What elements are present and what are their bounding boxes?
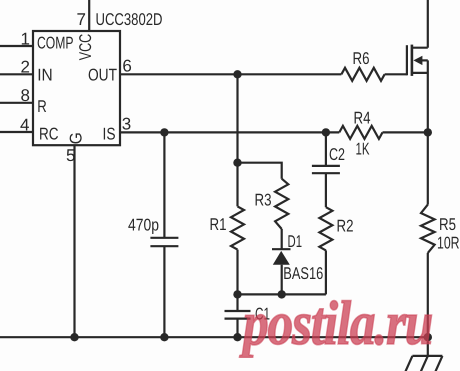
svg-text:BAS16: BAS16 [283,264,323,283]
svg-text:R1: R1 [210,215,227,234]
wire 470p upper lead [163,132,165,237]
svg-text:RC: RC [39,125,59,144]
wire ground rail [0,336,428,338]
node junction IS to 470p [160,128,168,136]
IC U1 UCC3802D body [33,31,120,145]
node junction OUT branch [233,70,241,78]
svg-text:10R: 10R [437,234,460,253]
wire branch to R3 [238,163,282,179]
resistor R2 [319,207,332,250]
resistor R5 [421,205,435,253]
svg-text:1K: 1K [356,140,370,159]
resistor R4 [339,126,382,139]
node junction R3 branch [233,159,241,167]
wire 470p lower lead [163,246,165,337]
wire VCC pin7 supply [88,0,90,31]
svg-text:OUT: OUT [88,65,117,84]
svg-text:R: R [37,97,47,116]
resistor R3 [275,179,288,229]
transistor Q1 body arrow [413,56,422,65]
svg-text:R6: R6 [353,49,370,68]
svg-text:IS: IS [103,125,116,144]
resistor R6 [341,68,384,81]
node junction rail C1 [233,333,241,341]
svg-text:R5: R5 [439,215,456,234]
svg-text:7: 7 [77,10,86,29]
svg-text:1: 1 [21,29,30,48]
svg-text:R3: R3 [255,191,272,210]
wire drain to supply [427,0,429,48]
wire pin 1 COMP stub [0,45,33,47]
wire IS pin3 to R4 [120,131,339,133]
capacitor 470p plates [150,238,178,246]
wire C1 lower lead [236,319,238,338]
svg-text:4: 4 [20,116,29,135]
svg-text:8: 8 [21,86,30,105]
resistor R1 [231,206,244,249]
node junction rail 470p [160,333,168,341]
svg-text:VCC: VCC [76,34,95,61]
transistor Q1 body line [421,59,428,61]
svg-text:2: 2 [21,57,30,76]
wire bottom branch R1 D1 R2 [238,293,326,295]
wire R1 to C1 [236,250,238,311]
wire pin 2 IN stub [0,73,33,75]
transistor Q1 channel bar [411,45,414,76]
wire source down to R5 [427,60,429,204]
node junction rail pin5 [70,333,78,341]
wire pin 5 G to ground rail [73,145,75,337]
wire R6 to gate [385,73,407,75]
node junction C2 branch [322,128,330,136]
node junction R4 source [424,128,432,136]
transistor Q1 drain connection [412,47,428,49]
wire OUT pin6 to R6 [120,73,341,75]
svg-text:C2: C2 [329,145,345,164]
wire R2 lower lead [325,250,327,294]
wire D1 anode down [281,265,283,295]
svg-text:IN: IN [37,65,53,84]
node junction D1 anode [278,290,286,298]
wire R5 to ground rail [427,253,429,356]
wire pin 4 RC stub [0,131,33,133]
svg-text:470p: 470p [128,216,159,235]
svg-text:G: G [67,132,86,144]
ground chassis symbol [405,356,442,371]
diode D1 cathode bar [272,248,291,250]
wire R3 to D1 cathode [281,229,283,249]
svg-text:UCC3802D: UCC3802D [96,10,163,29]
capacitor C1 plates [225,311,251,319]
transistor Q1 source connection [412,72,428,74]
wire OUT branch down to R1 [236,74,238,206]
wire R4 to source node [383,131,428,133]
diode D1 triangle [273,251,290,265]
wire pin 8 R stub [0,102,33,104]
wire C2 to R2 [325,173,327,207]
svg-text:6: 6 [122,57,131,76]
wire C2 upper lead [325,132,327,166]
svg-text:D1: D1 [288,232,303,251]
node junction rail ground [424,333,432,341]
capacitor C2 plates [312,166,340,173]
watermark postila.ru [243,293,432,355]
transistor Q1 gate bar [406,45,408,75]
node junction branch left [233,290,241,298]
svg-text:R4: R4 [354,109,371,128]
svg-text:3: 3 [122,115,131,134]
svg-text:COMP: COMP [37,33,74,52]
svg-text:R2: R2 [337,217,354,236]
